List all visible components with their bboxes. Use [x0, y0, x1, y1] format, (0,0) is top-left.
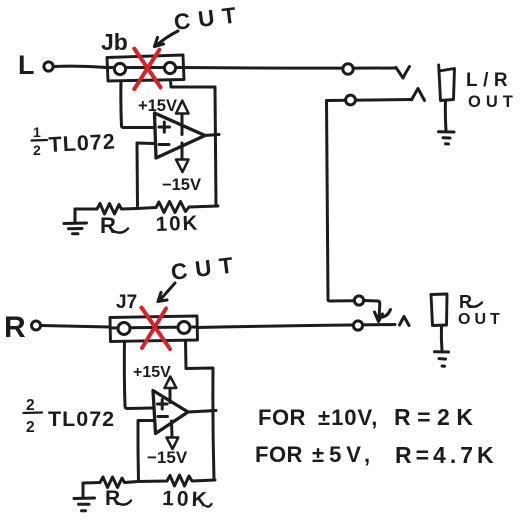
svg-text:FOR: FOR	[255, 442, 303, 467]
svg-text:CUT: CUT	[170, 252, 243, 285]
svg-text:±10V,: ±10V,	[318, 405, 378, 430]
svg-text:CUT: CUT	[173, 2, 246, 35]
svg-text:2: 2	[33, 142, 41, 158]
svg-text:+15V: +15V	[138, 97, 177, 115]
svg-text:±5V,: ±5V,	[312, 442, 375, 467]
svg-text:R=2K: R=2K	[394, 404, 479, 430]
svg-text:TL072: TL072	[48, 130, 116, 157]
svg-text:L/R: L/R	[466, 70, 513, 91]
svg-text:OUT: OUT	[458, 311, 504, 328]
svg-text:R: R	[4, 311, 26, 344]
svg-text:OUT: OUT	[468, 93, 518, 111]
svg-text:R: R	[105, 487, 120, 510]
svg-text:TL072: TL072	[48, 407, 115, 431]
svg-text:2: 2	[26, 397, 35, 414]
svg-text:2: 2	[26, 419, 35, 436]
svg-text:R: R	[100, 213, 116, 238]
svg-text:10K: 10K	[155, 211, 199, 236]
svg-text:Jb: Jb	[101, 29, 128, 55]
svg-text:R=4.7K: R=4.7K	[395, 442, 498, 468]
svg-text:J7: J7	[116, 292, 137, 313]
svg-text:R: R	[459, 292, 472, 312]
svg-text:L: L	[18, 50, 35, 80]
svg-text:−15V: −15V	[162, 176, 201, 194]
svg-text:FOR: FOR	[258, 405, 306, 430]
svg-text:−15V: −15V	[147, 448, 188, 467]
svg-text:10K: 10K	[162, 487, 210, 512]
svg-text:1: 1	[33, 124, 41, 140]
svg-text:+15V: +15V	[133, 364, 171, 381]
